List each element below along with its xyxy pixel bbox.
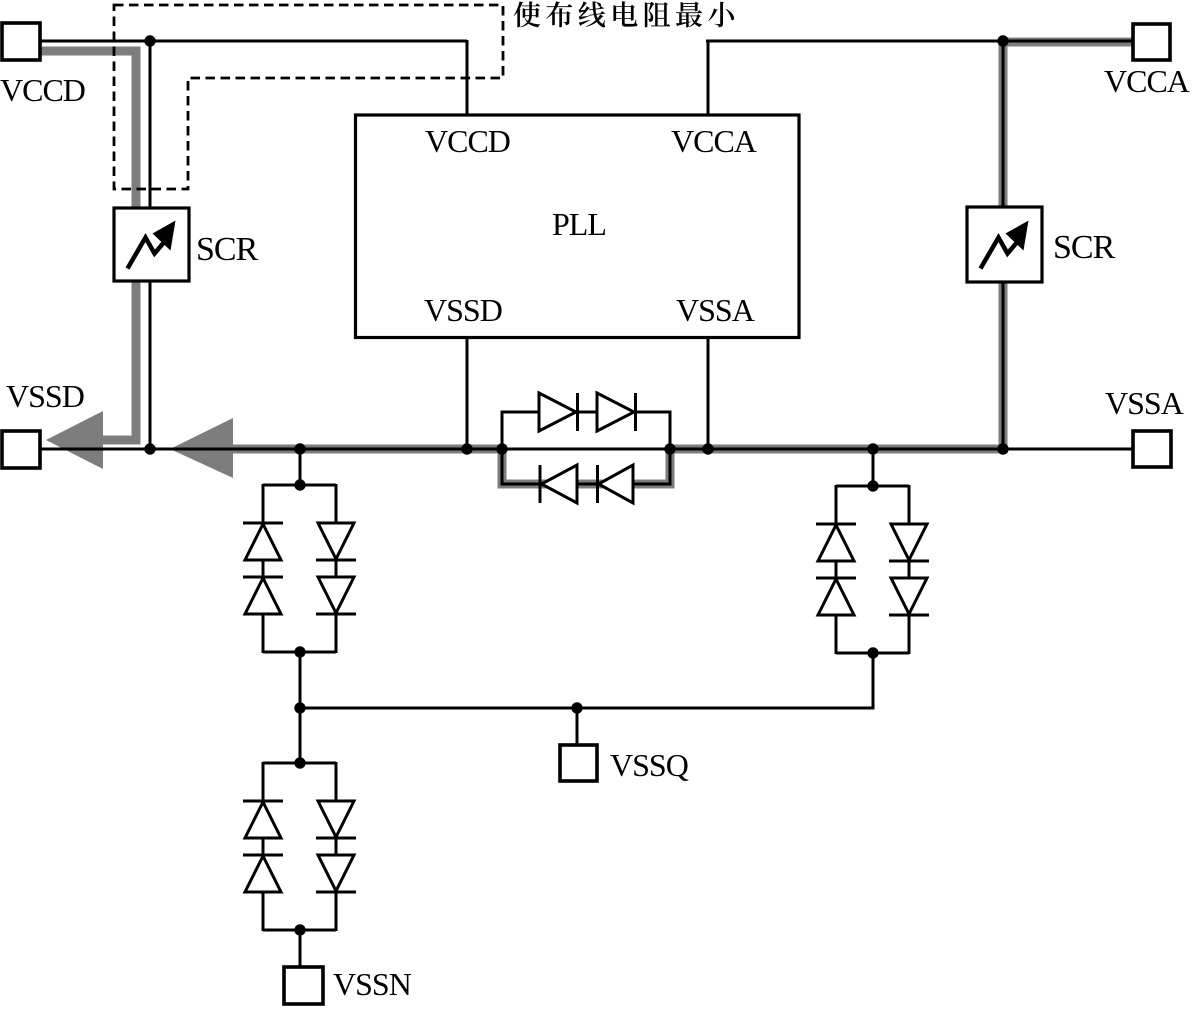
junction node (300,763) xyxy=(294,757,305,768)
SCR left zigzag arrow symbol xyxy=(128,238,166,269)
svg-text:VSSD: VSSD xyxy=(424,292,502,328)
diode DRa triangle xyxy=(818,525,854,561)
SCR right zigzag arrow symbol xyxy=(981,238,1019,269)
annotation text char shi (使) xyxy=(514,1,541,27)
wire: bottom bar of diode stack DN xyxy=(263,929,336,932)
svg-text:VCCA: VCCA xyxy=(1104,63,1190,99)
annotation text char dian (电) xyxy=(613,1,637,26)
wire: drop into PLL VCCD pin xyxy=(466,40,469,116)
svg-text:VSSQ: VSSQ xyxy=(610,747,689,783)
annotation text char zu (阻) xyxy=(645,2,670,28)
diode DNb triangle xyxy=(245,856,281,892)
svg-text:SCR: SCR xyxy=(196,231,259,268)
junction node (670,449) xyxy=(664,443,675,454)
junction node (1003,41) xyxy=(997,35,1008,46)
SCR device box right xyxy=(967,207,1042,282)
svg-text:VSSD: VSSD xyxy=(6,378,84,414)
diode DNd cathode bar xyxy=(316,891,356,894)
gray arrowhead pointing to VSSD pad xyxy=(46,411,103,469)
junction node (300,930) xyxy=(294,924,305,935)
svg-text:SCR: SCR xyxy=(1053,229,1116,266)
wire: right branch verticals of stack DR xyxy=(908,485,911,654)
junction node (300,449) xyxy=(294,443,305,454)
wire: rail down to right diode stack xyxy=(872,449,875,486)
VSSQ pad xyxy=(560,745,597,781)
diode DRc cathode bar xyxy=(889,560,929,563)
SCR device box left xyxy=(114,208,189,281)
diode DLa triangle xyxy=(245,524,281,560)
diode DNa (up-pointing, left branch) cathode bar xyxy=(243,800,283,803)
junction node (150,41) xyxy=(144,35,155,46)
wire: top horizontal to VCCA pad xyxy=(706,40,1134,43)
annotation text char xian (线) xyxy=(579,1,606,27)
wire: lower branch of back-to-back diode loop xyxy=(502,448,670,484)
junction node (300,708) xyxy=(294,702,305,713)
junction node (577,708) xyxy=(571,702,582,713)
diode DLd cathode bar xyxy=(316,613,356,616)
wire: left branch verticals of stack DL xyxy=(262,484,265,653)
junction node (502,449) xyxy=(496,443,507,454)
wire: VSSQ tap stub xyxy=(576,708,579,746)
diode DLd (down-pointing, right branch) triangle xyxy=(318,577,354,613)
diode DRd (down-pointing, right branch) triangle xyxy=(891,578,927,614)
diode D2 (points right, upper branch) xyxy=(597,393,634,431)
diode D3 (points left, lower branch) xyxy=(539,465,542,503)
diode DRd cathode bar xyxy=(889,614,929,617)
wire: VCCD pad to PLL VCCD pin (top horizontal) xyxy=(40,40,467,43)
wire: rail down to left diode stack xyxy=(299,449,302,485)
svg-text:PLL: PLL xyxy=(552,206,606,242)
annotation text char xiao (小) xyxy=(708,2,734,28)
diode DLb (up-pointing, left branch) cathode bar xyxy=(243,576,283,579)
diode DLa (up-pointing, left branch) cathode bar xyxy=(243,522,283,525)
gray arrowhead on VSS rail pointing left xyxy=(170,418,233,478)
diode DLc (down-pointing, right branch) triangle xyxy=(318,523,354,559)
wire: top bar of diode stack DL xyxy=(263,484,336,487)
wire: VSSN stack bottom down to VSSN pad xyxy=(299,930,302,968)
diode DNb (up-pointing, left branch) cathode bar xyxy=(243,854,283,857)
wire: left stack bottom down to VSSQ line xyxy=(299,652,302,708)
wire: left SCR branch vertical from VCCD net to VSSD rail xyxy=(149,41,152,449)
wire: PLL VSSA pin down to rail xyxy=(707,337,710,449)
VCCA pad xyxy=(1133,24,1170,60)
diode D4 (points left, lower branch) xyxy=(596,465,599,503)
VSSD pad xyxy=(2,431,40,468)
PLL block U1 xyxy=(356,115,800,338)
VSSN pad xyxy=(284,967,323,1004)
wire: upper branch of back-to-back diode loop xyxy=(502,412,670,450)
diode DRb triangle xyxy=(818,579,854,615)
diode D1 (points right, upper branch) xyxy=(539,393,576,431)
diode DNc (down-pointing, right branch) triangle xyxy=(318,801,354,837)
junction node (1003,449) xyxy=(997,443,1008,454)
diode DNc cathode bar xyxy=(316,837,356,840)
svg-text:VCCD: VCCD xyxy=(425,123,510,159)
VCCD pad xyxy=(2,23,40,60)
wire: main VSSD/VSSA horizontal rail xyxy=(40,448,1134,451)
diode DLc cathode bar xyxy=(316,559,356,562)
junction node (873,486) xyxy=(867,480,878,491)
wire: PLL VSSD pin down to rail xyxy=(466,337,469,449)
wire: left branch verticals of stack DN xyxy=(262,762,265,931)
wire: thick gray ESD path from VCCA pad down through right SCR, along VSS rail and lower diode branch to arrow xyxy=(231,42,1133,484)
wire: bottom bar of diode stack DR xyxy=(836,652,909,655)
wire: PLL VCCA pin up to top rail xyxy=(707,41,710,116)
junction node (708,449) xyxy=(702,443,713,454)
junction node (873,449) xyxy=(867,443,878,454)
annotation text char zui (最) xyxy=(676,2,702,28)
junction node (300,652) xyxy=(294,646,305,657)
junction node (150,449) xyxy=(144,443,155,454)
diode DNa triangle xyxy=(245,802,281,838)
wire: bottom bar of diode stack DL xyxy=(263,651,336,654)
wire: right branch verticals of stack DN xyxy=(335,762,338,931)
junction node (873,653) xyxy=(867,647,878,658)
annotation text char bu (布) xyxy=(546,1,572,27)
wire: right stack bottom down and left along VSSQ line xyxy=(300,653,873,708)
svg-text:VSSA: VSSA xyxy=(676,292,755,328)
diode DRc (down-pointing, right branch) triangle xyxy=(891,524,927,560)
diode DLb triangle xyxy=(245,578,281,614)
wire: right branch verticals of stack DL xyxy=(335,484,338,653)
wire: top bar of diode stack DR xyxy=(836,485,909,488)
junction node (467,449) xyxy=(461,443,472,454)
wire: left branch verticals of stack DR xyxy=(835,485,838,654)
dashed outline: low-resistance routing region xyxy=(114,5,503,189)
svg-text:VSSN: VSSN xyxy=(333,966,412,1002)
svg-text:VCCD: VCCD xyxy=(0,72,85,108)
wire: top bar of diode stack DN xyxy=(263,762,336,765)
wire: VSSQ line down to VSSN diode stack xyxy=(299,708,302,763)
diode DRb (up-pointing, left branch) cathode bar xyxy=(816,577,856,580)
VSSA pad xyxy=(1133,431,1171,467)
svg-text:VSSA: VSSA xyxy=(1105,385,1184,421)
wire: thick gray ESD path from VCCD pad down through left SCR to VSSD arrow xyxy=(41,51,136,440)
svg-text:VCCA: VCCA xyxy=(671,123,757,159)
diode DRa (up-pointing, left branch) cathode bar xyxy=(816,523,856,526)
junction node (300,485) xyxy=(294,479,305,490)
diode DNd (down-pointing, right branch) triangle xyxy=(318,855,354,891)
wire: right SCR branch vertical from VCCA net to VSSA rail xyxy=(1002,41,1005,449)
